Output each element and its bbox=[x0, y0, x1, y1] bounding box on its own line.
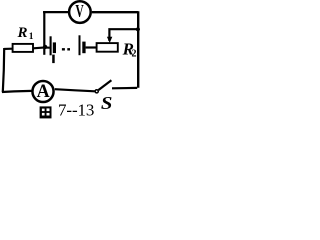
resistor R1 bbox=[13, 44, 33, 52]
switch blade bbox=[99, 80, 112, 90]
wire bottom right bbox=[112, 87, 137, 90]
wire top right bbox=[92, 11, 138, 13]
wire battery dashes bbox=[62, 48, 70, 50]
battery cell1 plate smudge bbox=[52, 55, 55, 64]
node slider tee bbox=[136, 27, 140, 31]
node junction dot bbox=[43, 45, 47, 49]
svg-text:1: 1 bbox=[29, 32, 34, 42]
svg-text:S: S bbox=[101, 94, 113, 113]
ammeter A bbox=[32, 81, 53, 102]
switch pivot bbox=[95, 90, 98, 93]
wire slider horizontal bbox=[109, 29, 138, 41]
wire R1 left bbox=[4, 48, 12, 50]
svg-text:2: 2 bbox=[132, 49, 137, 60]
svg-text:R: R bbox=[17, 25, 28, 41]
voltmeter V bbox=[69, 1, 91, 23]
svg-text:V: V bbox=[75, 3, 84, 22]
wire R2 left stub bbox=[86, 46, 97, 48]
wire down from top corner bbox=[43, 12, 45, 55]
resistor R2 bbox=[97, 43, 118, 52]
wire top left bbox=[44, 12, 68, 13]
wire bottom mid bbox=[55, 89, 95, 91]
battery cell1 short plate bbox=[53, 42, 56, 53]
wire left edge bbox=[3, 48, 4, 92]
wire right edge bbox=[137, 11, 139, 88]
svg-text:7--13: 7--13 bbox=[58, 100, 94, 119]
caption glyph tu (CJK box drawn manually) bbox=[40, 106, 52, 118]
svg-text:A: A bbox=[37, 81, 51, 103]
battery cell1 long plate bbox=[50, 36, 52, 55]
battery cell2 long plate bbox=[79, 35, 81, 55]
battery cell2 short plate bbox=[82, 42, 85, 54]
wire battery left stub bbox=[44, 46, 50, 48]
rheostat slider arrow bbox=[107, 37, 112, 43]
wire bottom left bbox=[2, 91, 32, 92]
wire R1 right bbox=[33, 46, 45, 49]
